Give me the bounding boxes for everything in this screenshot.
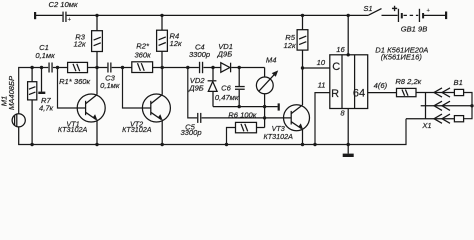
- svg-text:R2*: R2*: [136, 41, 150, 50]
- capacitor C2: [48, 0, 77, 23]
- transistor VT1 КТ3102А: [58, 68, 105, 145]
- transistor VT3 КТ3102А: [263, 68, 309, 145]
- node bus-ground: [347, 143, 350, 146]
- svg-text:3300p: 3300p: [180, 128, 201, 137]
- terminal stub with bar: [38, 66, 45, 94]
- svg-text:10: 10: [317, 58, 326, 67]
- svg-text:Д9Б: Д9Б: [188, 84, 204, 93]
- terminal bar L1 right: [278, 103, 280, 110]
- connector X1 chevrons bottom: [434, 114, 450, 123]
- wire rail after switch: [382, 14, 398, 16]
- wire pin 16: [347, 15, 349, 54]
- svg-text:КТ3102А: КТ3102А: [122, 125, 152, 134]
- wire top rail left segment: [36, 14, 62, 16]
- svg-text:+: +: [427, 8, 431, 14]
- resistor R1* 360к: [59, 62, 90, 86]
- node bus-VT2: [161, 143, 164, 146]
- wire detector line L1: [213, 106, 278, 108]
- svg-text:Д9Б: Д9Б: [217, 50, 233, 59]
- wire bottom bus: [19, 119, 406, 145]
- resistor R3 12к: [74, 15, 103, 67]
- wire battery to terminal: [424, 14, 445, 16]
- node C5 tap: [186, 66, 189, 69]
- wire X1 vertical: [425, 93, 427, 119]
- node rail-R5: [301, 14, 304, 17]
- svg-text:X1: X1: [421, 121, 431, 130]
- svg-text:С6: С6: [221, 84, 231, 93]
- svg-text:0,1мк: 0,1мк: [35, 51, 55, 60]
- earphone B1 top capsule: [454, 89, 463, 95]
- wire IC output 4(6): [368, 92, 397, 94]
- svg-text:М4: М4: [266, 56, 277, 65]
- node rail-R3: [95, 14, 98, 17]
- wire X1 middle line: [421, 105, 472, 107]
- resistor R6 100к: [227, 111, 265, 145]
- svg-text:4,7к: 4,7к: [39, 104, 54, 113]
- node R3/R1/C3/VT1 collector: [95, 66, 98, 69]
- transistor VT2 КТ3102А: [122, 68, 170, 145]
- IC D1 К561ИЕ20А: [330, 55, 368, 109]
- node signal-R7: [30, 66, 33, 69]
- resistor R4 12к: [157, 15, 182, 67]
- meter M4: [256, 56, 278, 94]
- capacitor C1 0,1мк: [35, 43, 55, 72]
- wire R2 to C4: [153, 67, 199, 69]
- resistor R5 12к: [284, 15, 308, 68]
- capacitor C4 3300p: [189, 43, 210, 73]
- node bus-R6: [225, 143, 228, 146]
- wire C1 to R1: [53, 67, 68, 69]
- svg-text:64: 64: [353, 88, 365, 100]
- node base line meter tap: [263, 116, 266, 119]
- svg-text:11: 11: [318, 81, 326, 90]
- svg-text:360к: 360к: [134, 50, 151, 59]
- svg-text:12к: 12к: [284, 41, 296, 50]
- terminal bar left (output terminal): [34, 12, 36, 19]
- battery GB1 9В: [392, 4, 431, 34]
- node L1-C6: [238, 105, 241, 108]
- diode VD1 Д9Б: [217, 42, 233, 72]
- resistor R7 4,7к: [28, 68, 54, 145]
- wire mic bottom to bus: [18, 127, 20, 145]
- node VT1 base tap: [56, 66, 59, 69]
- node VT2 base tap: [121, 66, 124, 69]
- connector X1 chevrons middle: [434, 101, 450, 110]
- microphone M1 МА408БР: [0, 75, 25, 127]
- wire C4 to VD1: [203, 67, 220, 69]
- wire VD1 to meter corner: [231, 67, 264, 69]
- wire VT2 base: [123, 68, 151, 109]
- svg-text:GB1 9В: GB1 9В: [401, 25, 428, 34]
- wire pin 11: [315, 93, 330, 145]
- terminal bar battery right: [445, 12, 447, 20]
- wire pin 8: [347, 109, 349, 145]
- node bus-pin11: [313, 143, 316, 146]
- svg-text:R1* 360к: R1* 360к: [59, 77, 90, 86]
- svg-text:0,1мк: 0,1мк: [100, 81, 120, 90]
- svg-text:КТ3102А: КТ3102А: [263, 132, 293, 141]
- wire pin 10: [303, 67, 330, 69]
- node VD2 tap: [211, 66, 214, 69]
- node rail-R4: [160, 14, 163, 17]
- svg-text:0,47мк: 0,47мк: [215, 93, 239, 102]
- wire top rail main segment: [67, 14, 369, 16]
- svg-text:12к: 12к: [74, 39, 86, 48]
- resistor R8 2,2к: [395, 77, 421, 97]
- svg-text:В1: В1: [454, 78, 463, 87]
- ground symbol: [343, 145, 354, 158]
- node B1 middle: [470, 104, 473, 107]
- svg-text:R6 100к: R6 100к: [228, 111, 256, 120]
- wire C5 to VT3 base: [202, 117, 292, 119]
- node bus-VT1: [95, 143, 98, 146]
- svg-text:+: +: [392, 4, 398, 15]
- wire C3 to R2: [112, 67, 132, 69]
- wire VT1 base: [58, 68, 86, 109]
- capacitor C6 0,47мк: [215, 68, 245, 107]
- node R4/VT2 collector: [161, 66, 164, 69]
- svg-text:КТ3102А: КТ3102А: [58, 125, 88, 134]
- svg-text:С2 10мк: С2 10мк: [48, 0, 77, 9]
- earphone B1 bottom capsule: [454, 116, 463, 122]
- diode VD2 Д9Б: [188, 68, 217, 107]
- svg-text:4(6): 4(6): [374, 81, 388, 90]
- node rail-pin16: [347, 14, 350, 17]
- svg-text:R8 2,2к: R8 2,2к: [395, 77, 421, 86]
- node pin16 entry: [347, 53, 350, 56]
- wire meter bottom vertical: [264, 94, 266, 128]
- wire R1 to node: [88, 67, 108, 69]
- svg-text:S1: S1: [363, 4, 372, 13]
- resistor R2* 360к: [132, 41, 153, 72]
- svg-text:C: C: [332, 61, 340, 73]
- switch S1: [363, 4, 381, 15]
- capacitor C3 0,1мк: [100, 63, 120, 91]
- node R5/VT3 collector/pin10: [301, 66, 304, 69]
- capacitor C5 3300p: [180, 113, 201, 137]
- wire B1 right bus: [464, 93, 472, 119]
- connector X1 chevrons top: [434, 88, 450, 97]
- svg-text:МА408БР: МА408БР: [7, 75, 16, 110]
- svg-text:3300p: 3300p: [189, 50, 210, 59]
- wire C5 drop: [188, 68, 197, 118]
- node C6 tap: [238, 66, 241, 69]
- svg-text:(К561ИЕ16): (К561ИЕ16): [381, 53, 423, 62]
- wire R8 to connector: [416, 92, 454, 94]
- node bus-VT3: [301, 143, 304, 146]
- wire X1 bottom line: [406, 118, 454, 120]
- node bus-R7: [30, 143, 33, 146]
- node L1-meter: [263, 105, 266, 108]
- wire mic top to signal line: [19, 68, 49, 114]
- svg-text:R: R: [331, 88, 339, 100]
- svg-text:16: 16: [336, 45, 345, 54]
- svg-text:12к: 12к: [170, 39, 182, 48]
